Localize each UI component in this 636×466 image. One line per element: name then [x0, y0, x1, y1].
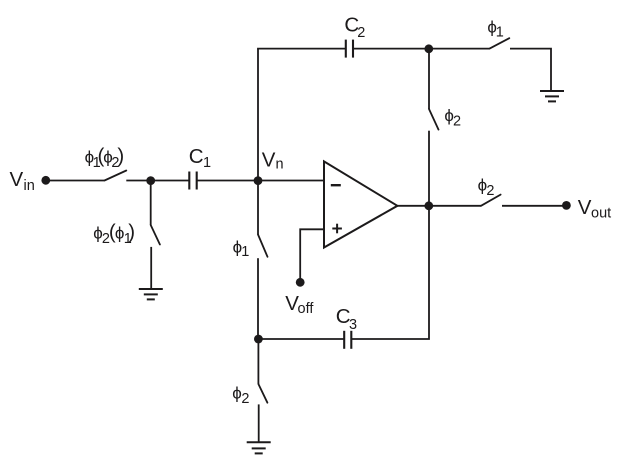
svg-text:n: n — [276, 157, 284, 173]
svg-text:out: out — [591, 205, 611, 221]
switch phi2(phi1) blade — [151, 225, 160, 245]
label C2 — [344, 13, 365, 41]
capacitor C3 — [344, 331, 351, 349]
op-amp U1 — [324, 161, 397, 247]
wire switch phi1 to node D — [257, 258, 259, 339]
wire node C to switch phi2 out — [429, 205, 481, 207]
ground left — [139, 289, 163, 299]
ground bottom middle — [247, 442, 271, 453]
wire Vn down to switch phi1 left — [257, 181, 259, 235]
svg-text:1: 1 — [496, 25, 504, 41]
node D junction — [254, 335, 263, 344]
wire C3 to node D — [258, 338, 344, 340]
switch S1 phi1(phi2) blade — [105, 171, 127, 181]
switch phi2 bottom blade — [258, 384, 267, 403]
svg-text:ϕ: ϕ — [232, 384, 242, 403]
wire top left to C2 — [257, 48, 346, 50]
svg-text:2: 2 — [357, 25, 365, 41]
label phi1 top — [487, 17, 503, 40]
node C junction — [424, 201, 433, 210]
ground top right — [540, 91, 564, 101]
svg-text:in: in — [24, 178, 35, 194]
svg-text:off: off — [298, 301, 315, 317]
switch phi2 right-vertical blade — [429, 109, 439, 130]
op-amp minus sign — [331, 184, 341, 186]
wire node C down to C3 branch — [351, 206, 429, 339]
node B junction — [424, 44, 433, 53]
label phi2 right vertical — [444, 106, 461, 129]
wire node D down to switch phi2 bottom — [257, 339, 259, 384]
terminal Vin — [41, 176, 50, 185]
wire switch phi2(phi1) to ground left — [150, 247, 152, 289]
node Vn junction — [254, 176, 263, 185]
label Vin — [10, 168, 35, 194]
label Vout — [578, 196, 611, 221]
terminal Voff — [296, 278, 305, 287]
wire S1 to node A — [126, 180, 151, 182]
capacitor C2 — [346, 40, 353, 58]
wire switch to Vout — [502, 205, 566, 207]
wire Vn to op-amp inverting input — [258, 180, 324, 182]
svg-text:1: 1 — [241, 244, 249, 260]
label C3 — [336, 305, 357, 333]
wire node A down to switch phi2(phi1) — [150, 181, 152, 226]
svg-text:V: V — [262, 148, 276, 171]
wire phi1 switch to ground stub — [510, 49, 551, 91]
node A junction — [146, 176, 155, 185]
svg-text:): ) — [117, 145, 124, 168]
wire switch phi2 to ground bottom — [258, 404, 260, 442]
svg-text:C: C — [189, 145, 204, 168]
wire op-amp noninverting input — [300, 229, 324, 282]
op-amp plus sign — [332, 224, 342, 234]
svg-text:V: V — [578, 196, 592, 219]
wire node A to C1 — [151, 180, 189, 182]
label C1 — [189, 145, 211, 171]
wire C2 to node B — [353, 48, 429, 50]
switch phi2 output blade — [481, 195, 501, 206]
svg-text:): ) — [128, 221, 135, 244]
svg-text:V: V — [10, 168, 24, 191]
wire Vn up to C2 branch — [257, 49, 259, 181]
svg-text:2: 2 — [453, 113, 461, 129]
wire op-amp output to node C — [397, 205, 429, 207]
label phi1(phi2) — [85, 145, 125, 171]
label phi1 left vertical — [233, 238, 250, 260]
label phi2 output — [478, 176, 495, 199]
wire node B to switch phi1 — [429, 48, 490, 50]
svg-text:3: 3 — [349, 317, 357, 333]
wire node B down to switch phi2 — [428, 49, 430, 109]
wire switch phi2 to node C — [428, 131, 430, 206]
label Voff — [285, 292, 314, 317]
wire C1 to node Vn — [197, 180, 258, 182]
switch phi1 top blade — [490, 38, 510, 48]
svg-text:1: 1 — [203, 155, 211, 171]
capacitor C1 — [189, 172, 196, 190]
label Vn — [262, 148, 284, 172]
label phi2 bottom — [232, 384, 249, 407]
terminal Vout — [562, 201, 571, 210]
svg-text:2: 2 — [241, 391, 249, 407]
switch phi1 left-vertical blade — [258, 235, 268, 257]
wire Vin to switch S1 — [46, 180, 105, 182]
label phi2(phi1) — [93, 221, 135, 247]
svg-text:2: 2 — [486, 183, 494, 199]
